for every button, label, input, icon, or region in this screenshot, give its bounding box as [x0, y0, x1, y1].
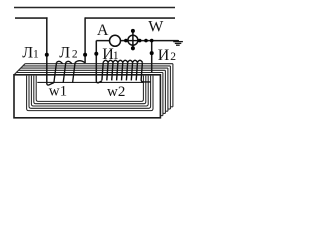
svg-text:w2: w2	[107, 84, 125, 100]
svg-text:A: A	[97, 22, 109, 39]
svg-text:1: 1	[33, 48, 39, 60]
svg-text:И: И	[158, 47, 170, 64]
svg-text:2: 2	[170, 51, 176, 63]
svg-text:Л: Л	[22, 44, 33, 61]
svg-text:1: 1	[113, 50, 119, 62]
svg-text:W: W	[148, 19, 164, 36]
svg-text:Л: Л	[59, 45, 70, 62]
svg-text:2: 2	[72, 49, 78, 61]
svg-text:w1: w1	[49, 84, 67, 100]
